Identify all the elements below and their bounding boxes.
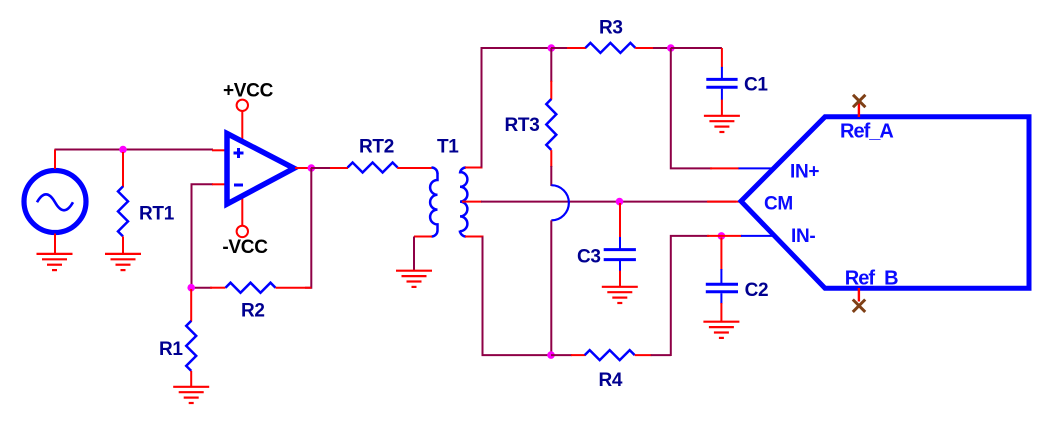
wire: T1 secondary bottom lead down to R4 rail [465,237,552,356]
wire: output to RT2 [311,167,331,169]
transformer T1 primary winding [430,168,437,237]
node: CM / C3 junction [616,198,624,206]
no-connect X at Ref_A [853,95,865,117]
wire: T1 center tap (CM net) [462,201,736,203]
svg-text:C1: C1 [744,74,768,95]
svg-text:RT1: RT1 [139,204,175,225]
wire: top rail to C1 [671,47,722,49]
node: output junction [308,164,316,172]
resistor R4 [551,350,671,360]
svg-text:C3: C3 [577,246,601,267]
wire: op-amp minus input net (vertical + horizontal) [192,184,214,287]
svg-text:RT2: RT2 [359,137,394,158]
wire: red stub into op-amp + input [212,149,226,151]
wire: T1 primary bottom lead to ground [414,237,432,271]
power pin +VCC [237,100,248,143]
capacitor C1 [706,48,737,116]
ground (C2) [703,322,739,338]
wire: R4 right corner up to IN- [671,236,709,356]
op-amp U1 [227,134,294,205]
no-connect X at Ref_B [853,288,865,312]
resistor RT3 [546,48,556,186]
capacitor C3 [604,203,636,287]
ground (source) [37,254,73,270]
resistor RT2 [330,163,432,173]
transformer T1 secondary winding [460,168,467,237]
power pin -VCC [237,194,248,237]
svg-text:R4: R4 [599,370,623,391]
wire: red stub into op-amp - input [212,183,226,185]
node: R4 rail / RT3 junction [547,351,555,359]
svg-text:CM: CM [764,193,793,214]
node: IN- / C2 junction [718,232,726,240]
pin IN- (thin blue) [741,235,776,237]
svg-text:RT3: RT3 [505,115,540,136]
svg-text:IN-: IN- [791,226,815,247]
node: R1/R2 junction [187,284,195,292]
wire: op-amp output stub [295,167,311,169]
wire: feedback vertical from output to R2 [305,168,311,288]
ground (T1) [396,271,432,287]
pin IN+ (thin blue) [739,167,777,169]
svg-text:+VCC: +VCC [223,80,274,101]
svg-text:Ref_B: Ref_B [845,268,898,290]
svg-text:T1: T1 [437,137,459,158]
wire: red stub IN- [707,235,742,237]
ground (C1) [704,116,740,132]
svg-text:IN+: IN+ [790,162,819,183]
voltage source V1 [24,150,86,254]
svg-text:Ref_A: Ref_A [840,121,893,143]
svg-text:-VCC: -VCC [222,237,268,258]
wire: T1 secondary top lead up to R3 rail [465,48,553,168]
ADC symbol U2 (pentagon) [741,117,1029,288]
ground (RT1) [105,254,141,270]
wire: main input net from source to op-amp + input [55,149,214,151]
svg-text:R3: R3 [599,17,623,38]
wire: red stub CM into shape [707,201,739,203]
node: R3 right junction [667,44,675,52]
svg-text:R1: R1 [159,339,183,360]
svg-text:R2: R2 [241,301,265,322]
capacitor C2 [706,238,738,322]
ground (C3) [602,287,638,303]
resistor RT1 [118,152,128,253]
wire hop: RT3 net hops over CM wire [551,185,569,220]
resistor R3 [551,43,671,53]
wire: RT3 net continues down to R4 rail [550,220,552,356]
ground (R1) [173,387,209,403]
node: top rail / RT3 junction [548,44,556,52]
resistor R1 [186,289,196,386]
svg-text:C2: C2 [745,280,769,301]
resistor R2 [192,283,312,293]
wire: red stub IN+ [710,167,739,169]
wire: R3 junction down to IN+ [671,48,712,168]
node: junction of source/RT1 [119,146,127,154]
